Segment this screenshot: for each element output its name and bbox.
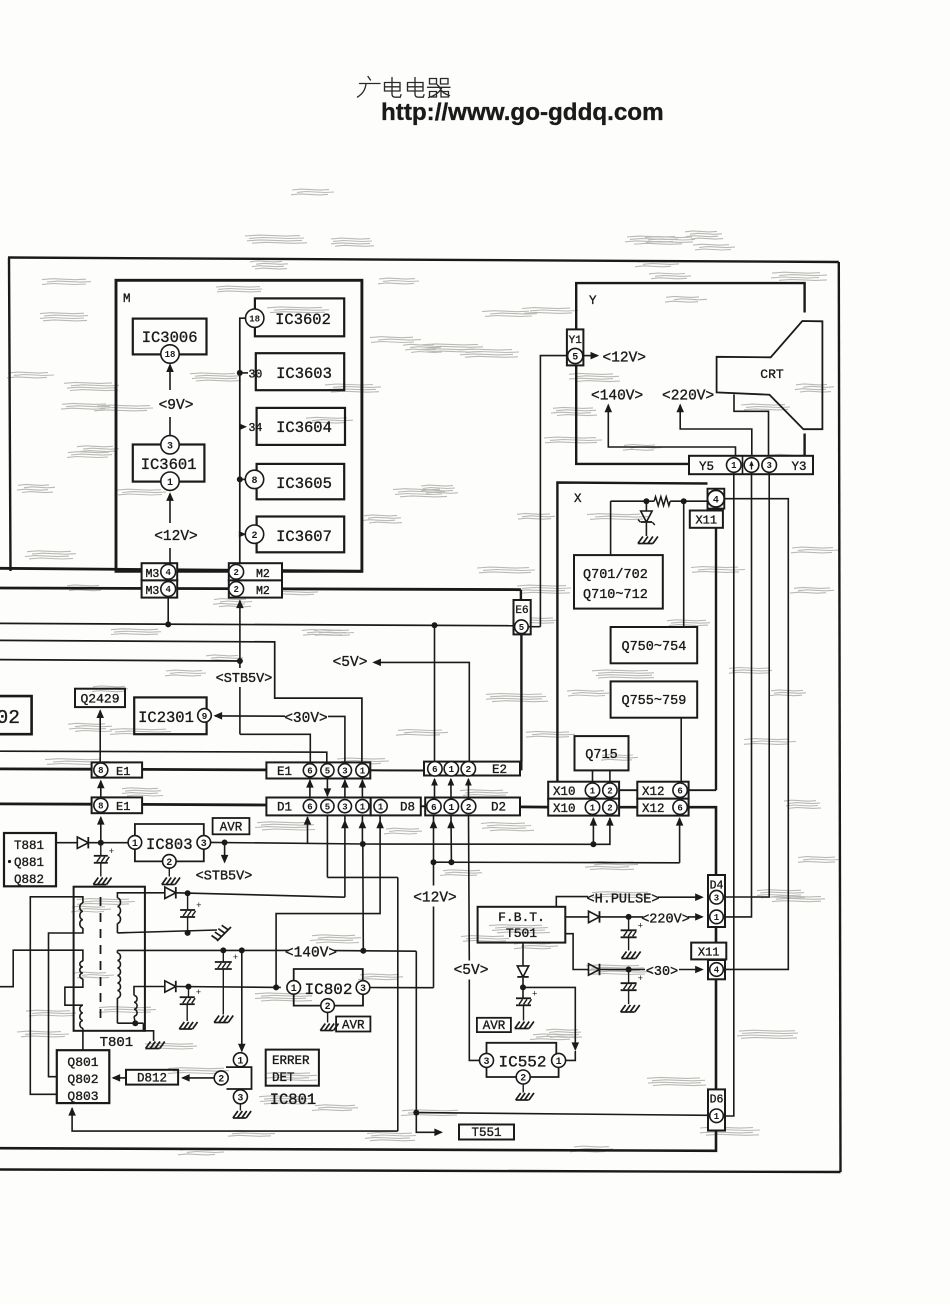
connector D4 — [708, 875, 725, 927]
primary winding P3 — [80, 1005, 83, 1028]
svg-text:Y1: Y1 — [569, 335, 583, 347]
block X outline — [557, 483, 707, 782]
primary winding P1 — [80, 903, 83, 928]
svg-text:2: 2 — [166, 858, 172, 869]
svg-text:E1: E1 — [116, 800, 130, 814]
svg-text:M2: M2 — [256, 568, 270, 581]
svg-text:34: 34 — [249, 422, 263, 435]
svg-text:CRT: CRT — [760, 367, 784, 382]
junction dot FBT 5V node — [520, 984, 526, 990]
wire Y1 pin5 to E6 pin5 — [540, 356, 567, 627]
svg-text:T801: T801 — [100, 1035, 134, 1051]
svg-text:3: 3 — [342, 767, 347, 777]
secondary winding S2 — [117, 953, 120, 998]
svg-text:1: 1 — [132, 839, 138, 850]
connector E1 box on left (row1) — [92, 762, 143, 777]
block Y outline — [576, 283, 804, 365]
svg-text:IC802: IC802 — [304, 981, 352, 999]
IC3607 — [257, 517, 345, 553]
svg-text:<5V>: <5V> — [454, 963, 489, 979]
svg-text:Q882: Q882 — [14, 873, 44, 887]
svg-text:<220V>: <220V> — [662, 389, 714, 405]
svg-text:2: 2 — [607, 803, 612, 813]
svg-text:1: 1 — [360, 767, 366, 777]
pin 18 of IC3006 — [161, 345, 179, 363]
IC801 error det — [233, 1053, 247, 1067]
IC3603 — [256, 353, 344, 390]
secondary winding S1 — [117, 898, 120, 923]
svg-text:Y5: Y5 — [699, 460, 714, 474]
svg-text:<140V>: <140V> — [591, 389, 643, 405]
svg-text:1: 1 — [590, 786, 596, 796]
wire Q755 to X12 pin6 — [680, 718, 682, 784]
page border right edge — [839, 262, 841, 1172]
junction dot STB5V branch — [222, 840, 228, 846]
ground T801 secondary — [146, 1042, 151, 1049]
AVR box near IC802 — [336, 1017, 370, 1032]
svg-text:Y3: Y3 — [792, 460, 807, 474]
svg-text:X10: X10 — [553, 785, 576, 799]
wire H.PULSE from FBT — [556, 897, 588, 907]
svg-text:AVR: AVR — [220, 821, 243, 835]
wire D1 pin1 down — [361, 815, 363, 844]
svg-text:T881: T881 — [14, 839, 44, 853]
svg-text:1: 1 — [714, 1112, 720, 1122]
ground FBT cap — [515, 1022, 520, 1029]
junction dot 140V to IC801 — [239, 947, 245, 953]
capacitor at T881 node — [100, 843, 102, 856]
T551 box — [459, 1125, 514, 1140]
zener diode D7xx — [645, 501, 647, 511]
wire T881 node up to E1 left row2 — [100, 817, 102, 843]
IC3002 box cut at left edge — [0, 696, 32, 734]
svg-text:Q801: Q801 — [67, 1055, 98, 1070]
ground cap IC802 row — [179, 1022, 184, 1029]
wire 5V net to IC552 pin3 — [469, 980, 480, 1061]
svg-text:1: 1 — [360, 802, 366, 812]
svg-text:2: 2 — [218, 1075, 224, 1086]
svg-text:<140V>: <140V> — [285, 946, 337, 962]
bus M-row1 (M block bottom bus) — [0, 568, 362, 571]
wire X10row2 to X12row2 — [619, 806, 637, 809]
connector X12 row1 — [637, 782, 688, 799]
Q701/702 Q710~712 box — [574, 555, 663, 609]
IC803 — [128, 836, 142, 850]
svg-text:E1: E1 — [277, 765, 292, 779]
svg-text:5: 5 — [325, 802, 330, 812]
connector E6 — [514, 600, 531, 634]
connector E1 — [266, 762, 370, 778]
junction dot S3 bottom — [132, 1020, 138, 1026]
wire D2pin6 net to IC802 pin3 — [370, 987, 434, 989]
junction dot IC802 pin1 node — [273, 984, 279, 990]
wire 30V into IC2301 pin9 — [214, 712, 223, 720]
wire bus M-row2 into E6 — [520, 590, 522, 600]
IC3604 — [257, 408, 345, 445]
junction dot L1 to X10 pin1 — [590, 841, 596, 847]
wire 140V to connector Y5 pin1 — [605, 404, 613, 413]
svg-text:+: + — [638, 974, 643, 984]
junction dot X rail left — [643, 498, 649, 504]
svg-text:1: 1 — [556, 1057, 562, 1068]
junction dot busC-M3 — [165, 621, 171, 627]
svg-text:IC801: IC801 — [270, 1091, 317, 1109]
pin 8 of IC3605 — [245, 470, 263, 488]
junction dot IC3605 pin8 — [237, 476, 243, 482]
svg-text:Q710~712: Q710~712 — [583, 588, 648, 603]
resistor in X block — [654, 497, 670, 506]
svg-text:2: 2 — [251, 531, 257, 542]
svg-text:IC803: IC803 — [146, 836, 193, 854]
wire S1 bottom to ground — [116, 923, 118, 933]
capacitor FBT node — [516, 997, 531, 999]
Q750~754 box — [611, 627, 698, 663]
svg-text:X12: X12 — [642, 785, 665, 799]
svg-text:http://www.go-gddq.com: http://www.go-gddq.com — [381, 99, 664, 126]
connector X10 row1 — [548, 782, 619, 799]
junction dot cap branch IC802 row — [186, 984, 192, 990]
svg-text:<STB5V>: <STB5V> — [216, 672, 273, 687]
svg-text:IC552: IC552 — [498, 1054, 546, 1072]
page border top edge — [8, 258, 839, 263]
svg-text:1: 1 — [731, 461, 737, 471]
svg-text:T501: T501 — [506, 926, 537, 941]
wire Y5 middle pin to D4 pin1 — [725, 472, 752, 917]
wire diode to node — [522, 978, 524, 998]
wire branch to T551 — [416, 1113, 441, 1133]
pin 3 of IC3601 — [161, 436, 179, 454]
wire P2 top to left edge stub — [0, 950, 83, 987]
wire X interior rail — [611, 500, 655, 502]
wire X11 to D6 trunk — [715, 979, 718, 1089]
T801 core dashes — [100, 897, 102, 1022]
capacitor 220V — [628, 917, 630, 930]
svg-text:8: 8 — [98, 802, 103, 812]
svg-text:D8: D8 — [400, 801, 415, 815]
junction dot D1pin1-140V rail — [360, 948, 366, 954]
connector D8 — [371, 798, 421, 816]
svg-text:+: + — [109, 847, 114, 857]
wire X12row2 pin6 down to D4 — [689, 807, 716, 875]
svg-text:3: 3 — [766, 461, 771, 471]
svg-text:6: 6 — [431, 802, 437, 813]
wire P1 bottom to Q802 via left — [49, 928, 83, 1077]
pin 2 of IC3607 — [245, 525, 263, 543]
wire D2 pin1 stub — [450, 815, 452, 862]
CRT — [717, 321, 823, 429]
wire E1 pin3 to D1 pin3 arrow up — [344, 780, 346, 797]
diode FBT bottom — [517, 966, 528, 977]
connector X11 top pin4 — [708, 489, 725, 509]
wire 12V rail — [177, 893, 345, 897]
svg-text:F.B.T.: F.B.T. — [498, 910, 545, 925]
svg-text:3: 3 — [714, 893, 719, 903]
capacitor 30V — [628, 970, 630, 984]
ground below IC803 pin2 — [168, 868, 170, 876]
ground 140V cap — [214, 1016, 219, 1023]
IC2301 box — [134, 697, 206, 734]
connector D2 — [425, 798, 520, 816]
wire E6 down to E2 connector — [520, 634, 522, 761]
wire X11 pin4 top to X11 pin4 bottom — [725, 499, 789, 970]
svg-text:4: 4 — [713, 495, 719, 506]
wire STB5V to connector E1 pin6 — [240, 734, 310, 762]
svg-text:ERRER: ERRER — [272, 1054, 310, 1068]
svg-text:<5V>: <5V> — [333, 655, 368, 671]
Q755~759 box — [611, 681, 698, 717]
capacitor IC802 row — [188, 987, 190, 997]
IC3605 — [257, 464, 345, 499]
wire 140V rail — [117, 949, 289, 951]
junction dot D1pin1-IC803 line — [360, 841, 366, 847]
svg-text:2: 2 — [233, 568, 238, 578]
wire IC803 pin3 line L1 — [211, 842, 363, 844]
junction dot IC3603 pin30 — [237, 370, 243, 376]
ground IC801 pin3 — [239, 1104, 241, 1111]
svg-text:Q2429: Q2429 — [80, 692, 119, 707]
diode D8xx IC802 row — [165, 981, 176, 992]
wire D6 to bottom rail — [0, 1131, 716, 1151]
wire L1 up arrow into X10 row2 pin1 — [592, 818, 594, 844]
wire 220V row — [600, 916, 643, 918]
junction dot busC to E2 pin6 — [432, 622, 438, 628]
connector E2 — [424, 762, 520, 776]
ERRER DET box — [266, 1050, 319, 1086]
wire H.PULSE arrow to D4 pin3 — [658, 896, 702, 898]
ground of zener — [638, 537, 643, 544]
wire E6 pin5 to Y1 line — [528, 626, 540, 628]
Q715 box — [575, 736, 629, 770]
junction dot X rail right — [681, 498, 687, 504]
svg-text:2: 2 — [233, 585, 238, 595]
svg-text:1: 1 — [448, 802, 454, 813]
connector M3 row1 — [142, 563, 178, 580]
svg-text:M: M — [123, 292, 131, 306]
Q2429 box — [75, 689, 125, 707]
IC3006 — [133, 319, 207, 355]
ground below IC802 pin2 — [327, 1012, 329, 1022]
connector X11 bottom label — [691, 943, 726, 960]
junction dot busE-STB5V — [237, 658, 243, 664]
wire STB5V down arrow — [224, 843, 226, 863]
svg-text:3: 3 — [237, 1093, 243, 1104]
svg-text:6: 6 — [677, 803, 682, 813]
primary winding P2 — [80, 961, 83, 979]
IC802 — [287, 981, 301, 995]
wire S2 S3 bottom common — [116, 998, 118, 1023]
svg-text:1: 1 — [448, 764, 454, 775]
svg-text:X: X — [574, 492, 582, 506]
wire D8 pin1 down to IC802 pin1 branch — [276, 815, 380, 987]
wire 30V arrow to X11 pin4 — [679, 969, 702, 971]
wire 140V rail right segment — [334, 950, 416, 953]
wire IC column bus — [240, 318, 246, 563]
diode D881 — [77, 837, 88, 848]
junction dot L2 at D2 pin1 — [448, 859, 454, 865]
svg-text:<12V>: <12V> — [154, 529, 198, 545]
wire D2 pin2 5V net down — [468, 815, 471, 960]
wire FBT to 220V diode — [565, 916, 588, 918]
svg-text:5: 5 — [572, 353, 578, 364]
secondary winding S3 — [134, 995, 137, 1016]
T801 transformer box — [74, 887, 145, 1031]
svg-text:D6: D6 — [710, 1094, 724, 1107]
junction dot 12V cap — [185, 890, 191, 896]
wire E2 pins to D2 pins with up arrows — [434, 779, 436, 798]
capacitor 12V rail — [187, 893, 189, 910]
junction dot T881 node — [98, 840, 104, 846]
D812 box — [126, 1070, 178, 1085]
svg-text:8: 8 — [251, 476, 257, 487]
wire S3 top to IC802 row — [134, 987, 165, 996]
wire P1 top to Q803 via left — [30, 897, 83, 1095]
wire Y1 pin5 12V arrow — [583, 355, 597, 357]
svg-text:Q715: Q715 — [585, 748, 617, 763]
svg-text:6: 6 — [432, 764, 438, 775]
svg-text:E2: E2 — [492, 763, 507, 777]
svg-text:<9V>: <9V> — [159, 398, 194, 414]
svg-text:IC2301: IC2301 — [138, 709, 194, 727]
svg-text:E6: E6 — [515, 605, 528, 617]
svg-text:1: 1 — [714, 913, 720, 923]
junction dot L2 at D2 pin6 — [431, 859, 437, 865]
svg-text:D812: D812 — [137, 1072, 167, 1086]
svg-text:9: 9 — [202, 711, 208, 722]
wire E1 pin1 to D1 pin1 arrow up — [361, 780, 363, 797]
svg-text:4: 4 — [165, 585, 171, 595]
wire Y5 pin1 to D6 pin1 — [725, 472, 734, 1116]
bus C y625 — [0, 623, 515, 625]
wire to D6 pin1 — [416, 1113, 708, 1116]
svg-text:02: 02 — [0, 707, 20, 729]
pin 9 of IC2301 — [198, 709, 212, 723]
wire D812 to Q801 box — [113, 1077, 126, 1079]
svg-text:3: 3 — [360, 984, 366, 995]
wire L2 D2pin1 to X12 row2 pin6 — [434, 861, 680, 864]
svg-text:DET: DET — [272, 1071, 295, 1085]
wire P2 bottom jog to P3 top — [65, 979, 83, 1005]
diode 220V — [589, 911, 600, 922]
svg-text:4: 4 — [714, 966, 720, 976]
bus M-row2 — [0, 588, 521, 590]
capacitor 140V rail — [222, 950, 224, 961]
wire Q715 pin to X10 pin1 — [592, 770, 594, 783]
wire E1 pin6 to D1 pin6 arrow up — [309, 780, 311, 797]
svg-text:AVR: AVR — [483, 1019, 506, 1033]
svg-text:IC3605: IC3605 — [276, 475, 332, 493]
wire X12row1 pin6 to X block right edge — [689, 789, 716, 791]
svg-text:Q802: Q802 — [67, 1072, 98, 1087]
svg-text:<H.PULSE>: <H.PULSE> — [587, 893, 660, 908]
junction dot 220V cap — [626, 914, 632, 920]
page border left edge (cut) — [9, 258, 11, 572]
wire S1 top to 12V diode row — [117, 893, 164, 898]
page border bottom edge — [0, 1170, 841, 1173]
wire IC801 pin2 to D812 — [183, 1077, 215, 1079]
bus E row y770 — [0, 768, 92, 771]
svg-text:+: + — [196, 901, 201, 911]
junction dot S1 bottom — [185, 930, 191, 936]
IC3601 — [133, 445, 205, 482]
svg-text:Q803: Q803 — [67, 1089, 98, 1104]
svg-text:+: + — [196, 988, 201, 998]
ground IC552 pin2 — [522, 1084, 524, 1093]
IC552 — [480, 1053, 494, 1067]
wire IC802 pin1 row — [177, 986, 281, 989]
svg-text:+: + — [638, 921, 643, 931]
svg-text:2: 2 — [325, 1002, 331, 1013]
wire 220V arrow to D4 pin1 — [688, 916, 702, 918]
svg-text:Q701/702: Q701/702 — [583, 568, 648, 583]
wire Y5 pin3 to D4 pin3 — [725, 472, 770, 897]
connector X11 top label — [690, 511, 723, 528]
svg-text:3: 3 — [342, 802, 347, 812]
svg-text:5: 5 — [325, 767, 330, 777]
wire diode to IC803 pin1 — [89, 842, 128, 844]
wire E6 bus into E2 box right — [520, 762, 522, 771]
wire STB5V vertical from M2 — [236, 600, 244, 609]
svg-text:IC3602: IC3602 — [275, 311, 331, 329]
svg-text:X10: X10 — [553, 802, 576, 816]
connector X12 row2 — [637, 799, 688, 816]
connector M2 row1 — [229, 563, 282, 580]
svg-text:<12V>: <12V> — [603, 351, 647, 367]
svg-text:6: 6 — [307, 802, 312, 812]
wire 9V arrow into IC3006 pin18 — [169, 417, 171, 435]
wire 5V from E2 pin2 — [372, 659, 381, 667]
svg-text:18: 18 — [165, 350, 176, 360]
svg-text:1: 1 — [167, 478, 173, 489]
block M outline — [116, 280, 362, 571]
wire node to IC552 pin1 — [523, 987, 575, 1049]
svg-text:3: 3 — [201, 839, 207, 850]
svg-text:2: 2 — [607, 786, 612, 796]
connector D1 — [266, 798, 370, 816]
junction dot 30V cap — [626, 967, 632, 973]
Q801 Q802 Q803 box — [57, 1050, 110, 1103]
svg-text:8: 8 — [98, 766, 103, 776]
wire to Q750 box — [683, 501, 685, 627]
FBT T501 box — [478, 907, 566, 943]
svg-text:2: 2 — [465, 764, 471, 775]
svg-text:<30>: <30> — [646, 965, 678, 980]
wire Q803 feedback horizontal — [72, 1108, 398, 1131]
bus D y641 to E1 pin1 — [0, 640, 362, 762]
diode 30V — [589, 964, 600, 975]
wire P3 bottom to Q801 box — [82, 1028, 84, 1050]
svg-text:1: 1 — [291, 984, 297, 995]
diode D8xx 12V — [165, 887, 176, 898]
svg-text:+: + — [233, 953, 238, 963]
wire FBT bottom to diode — [522, 943, 524, 966]
T881 Q881 Q882 box — [4, 833, 56, 886]
wire S2 top to 140V rail — [116, 950, 118, 953]
wire X10row1 to X12row1 — [619, 789, 637, 791]
connector M2 row2 — [229, 580, 282, 597]
svg-text:D1: D1 — [277, 801, 292, 815]
junction dot D6 line — [413, 1110, 419, 1116]
connector X10 row2 — [548, 799, 619, 816]
svg-text:Y: Y — [589, 294, 597, 308]
svg-text:E1: E1 — [116, 765, 130, 779]
connector M3 row2 — [142, 580, 178, 597]
header Chinese title 广电电器 (drawn strokes) — [358, 77, 451, 98]
svg-text:+: + — [532, 989, 537, 999]
wire busC down to E2 pin6 and D2 chain — [434, 625, 436, 761]
connector D6 — [708, 1089, 725, 1130]
svg-text:<30V>: <30V> — [284, 711, 328, 727]
wire FBT to 30V diode — [565, 934, 588, 970]
